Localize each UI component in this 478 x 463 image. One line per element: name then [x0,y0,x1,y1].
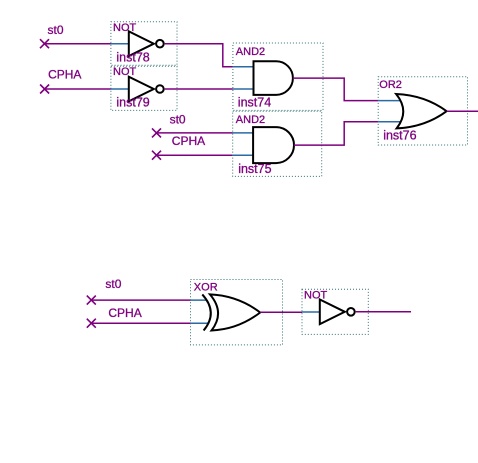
AND2 gate U inst75 [233,111,322,176]
svg-text:NOT: NOT [113,22,137,34]
svg-text:inst76: inst76 [383,129,416,143]
XOR gate [191,280,283,345]
input pin st0 (X marker) [40,39,49,48]
svg-text:CPHA: CPHA [172,134,205,148]
wire NOT output [356,311,411,313]
svg-text:OR2: OR2 [379,79,402,91]
svg-text:inst74: inst74 [238,96,271,110]
input pin st0 lower (X marker) [87,296,96,305]
wire XOR output to NOT input [260,311,302,313]
OR2 gate U inst76 [378,77,467,145]
svg-text:XOR: XOR [194,282,218,294]
svg-text:AND2: AND2 [236,114,265,126]
wire inst79 output to inst74 input2 [165,88,233,90]
wire inst76 output [447,110,478,112]
input pin CPHA middle (X marker) [152,151,161,160]
wire st0 to XOR input1 [91,299,190,301]
svg-text:st0: st0 [48,23,64,37]
input pin st0 middle (X marker) [152,128,161,137]
wire CPHA to inst79 input [45,88,111,90]
svg-text:NOT: NOT [113,66,137,78]
wire inst74 output to inst76 input1 [293,78,378,101]
NOT gate U inst78 [111,22,177,65]
svg-text:inst79: inst79 [116,96,149,110]
svg-text:NOT: NOT [304,289,328,301]
wire CPHA to XOR input2 [91,322,190,324]
label CPHA (top-left input) [48,68,81,82]
label st0 (lower input) [105,277,121,291]
NOT gate (lower) [302,289,368,334]
svg-text:CPHA: CPHA [108,306,141,320]
label st0 (top-left input) [48,23,64,37]
wire st0 to inst75 input1 [157,132,233,134]
svg-text:st0: st0 [170,113,186,127]
label st0 (middle input) [170,113,186,127]
svg-text:inst78: inst78 [116,51,149,65]
wire inst75 output to inst76 input2 [294,122,378,145]
svg-text:AND2: AND2 [236,46,265,58]
NOT gate U inst79 [111,66,177,110]
label CPHA (lower input) [108,306,141,320]
input pin CPHA (X marker) [40,85,49,94]
svg-text:inst75: inst75 [238,162,271,176]
label CPHA (middle input) [172,134,205,148]
input pin CPHA lower (X marker) [87,319,96,328]
svg-text:CPHA: CPHA [48,68,81,82]
wire st0 to inst78 input [45,43,111,45]
wire CPHA to inst75 input2 [157,154,233,156]
svg-text:st0: st0 [105,277,121,291]
wire inst78 output to inst74 input1 [165,44,233,67]
AND2 gate U inst74 [233,43,323,110]
